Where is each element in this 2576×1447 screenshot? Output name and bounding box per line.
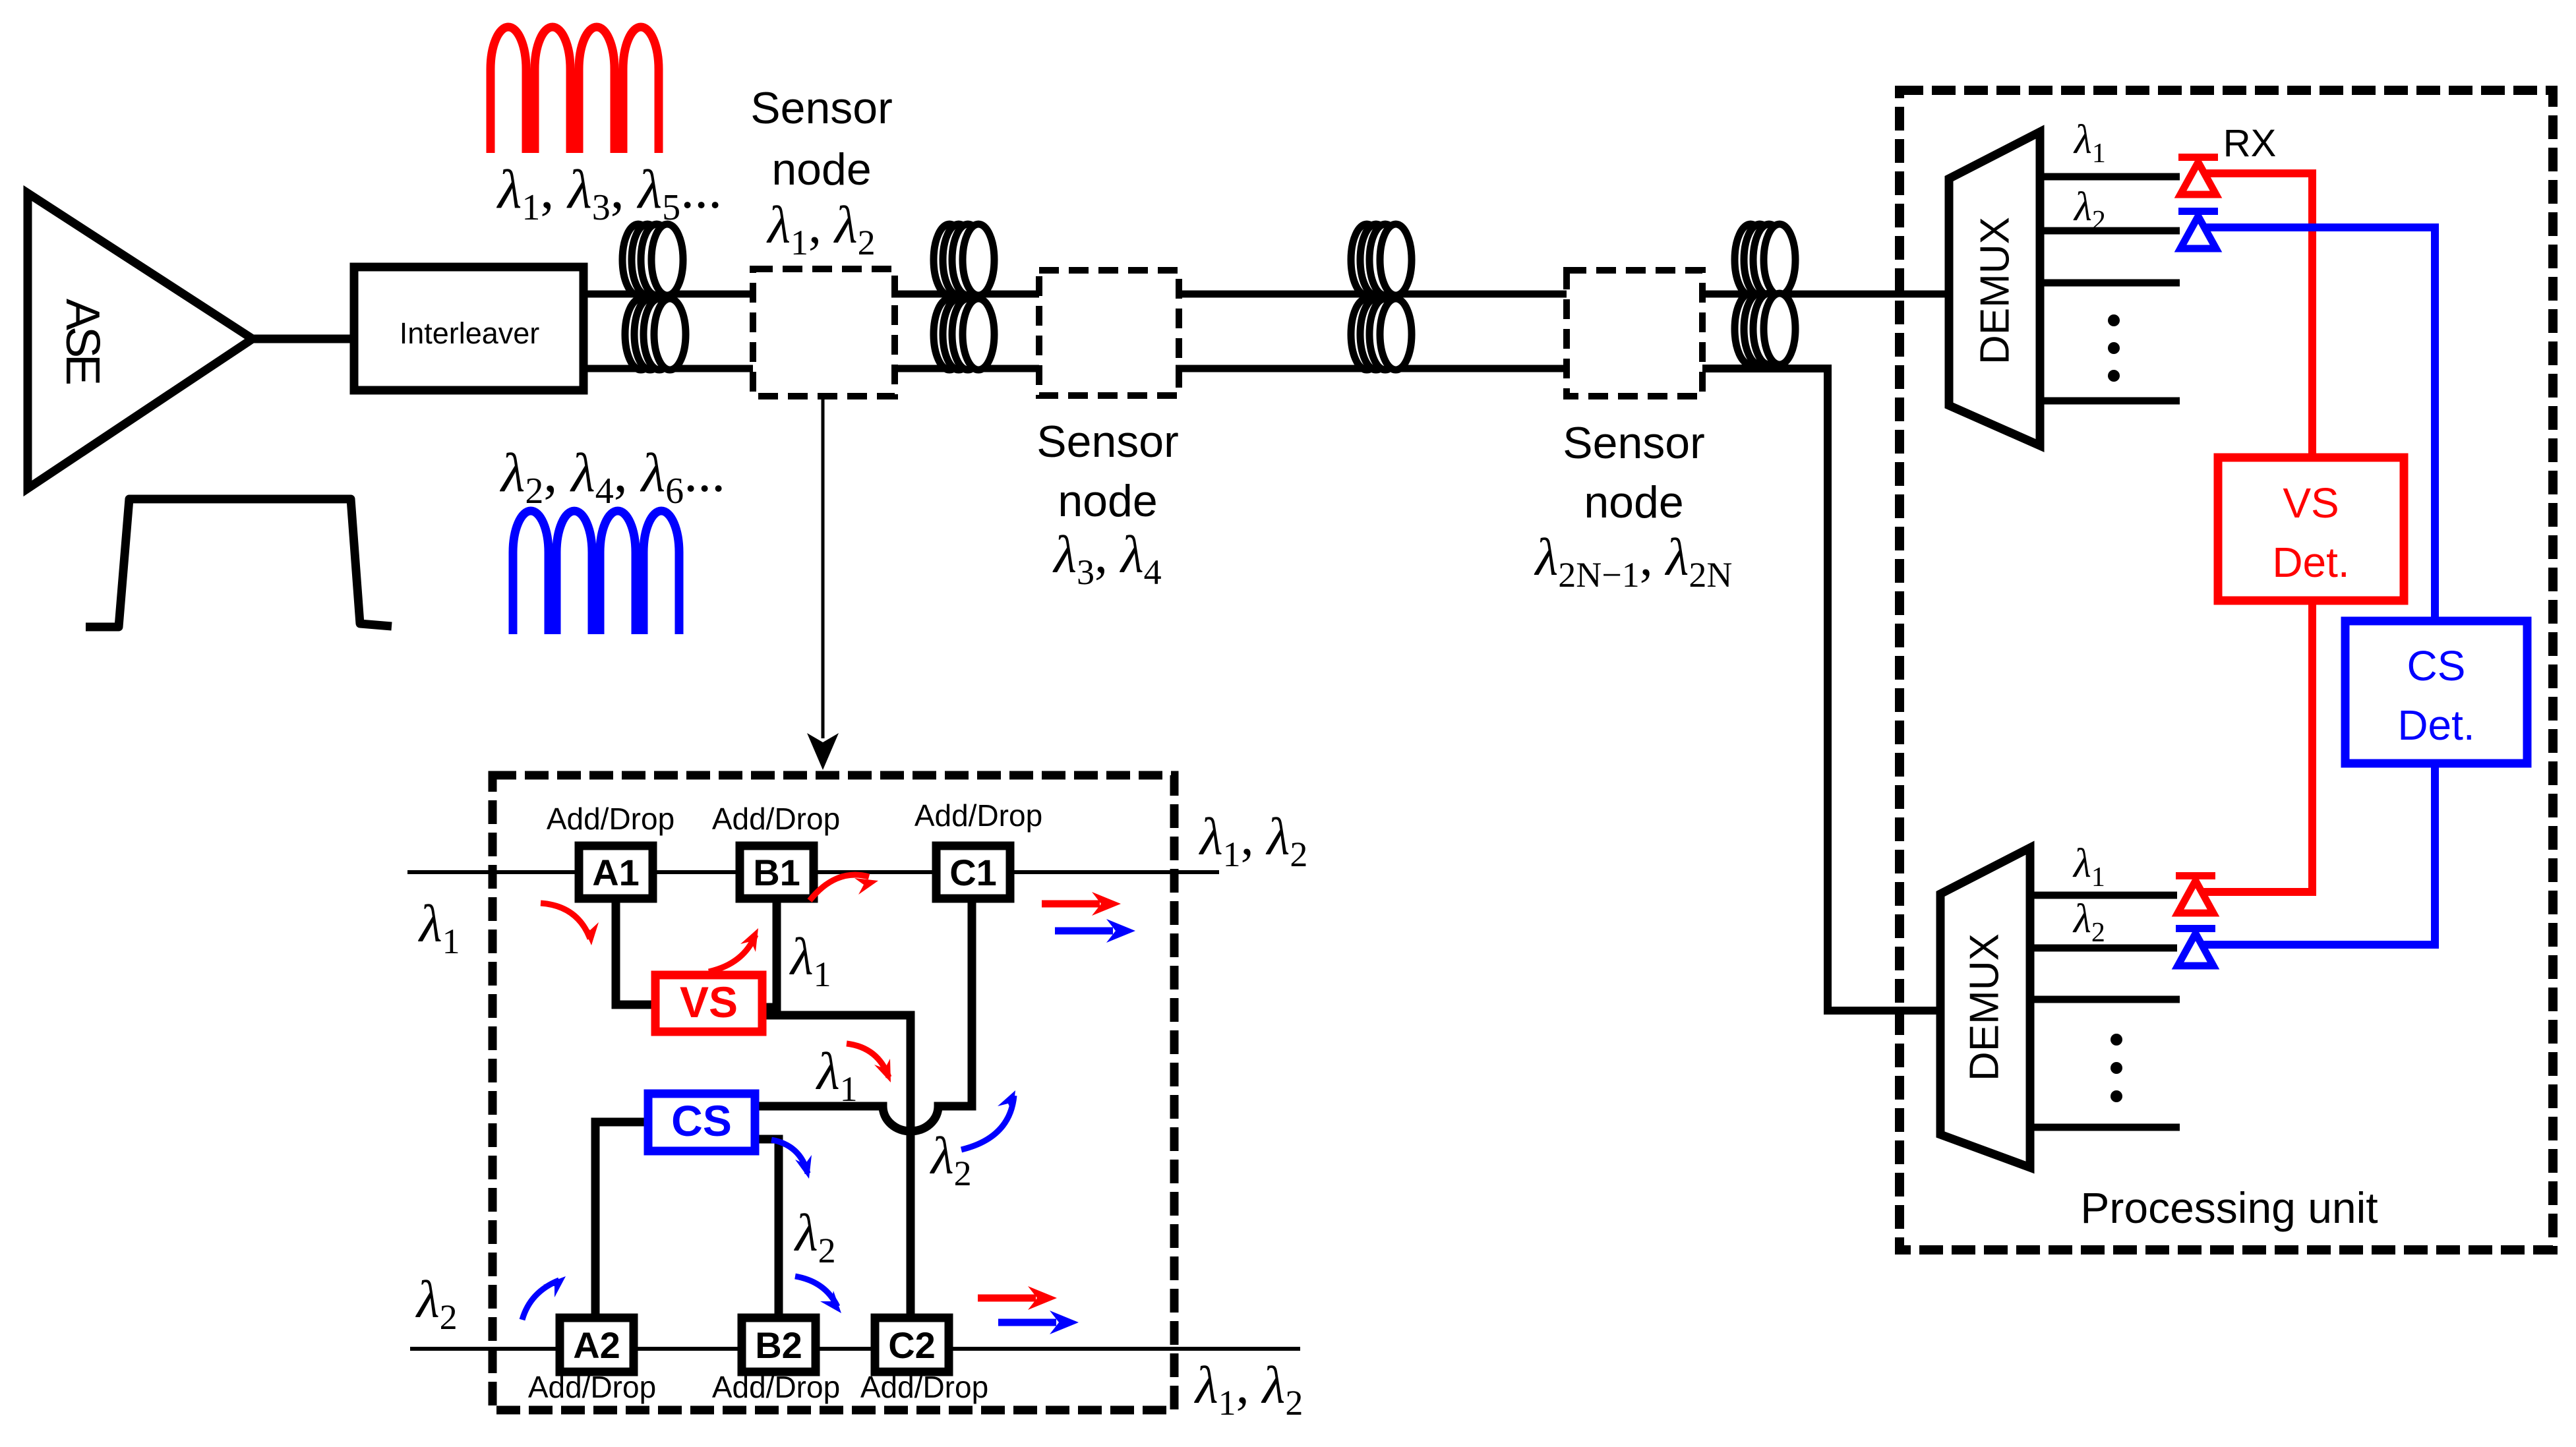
- add/drop filter A1: [579, 846, 653, 899]
- fiber coil 1 top: [622, 224, 683, 295]
- svg-text:Det.: Det.: [2272, 539, 2349, 586]
- svg-text:VS: VS: [680, 978, 738, 1026]
- bottom bus wire segments: [584, 365, 753, 372]
- processing unit dashed box: [1900, 90, 2553, 1250]
- DEMUX 2: [1940, 848, 2030, 1167]
- detail top bus wire: [407, 870, 1219, 874]
- fiber coil 2 bottom: [934, 299, 994, 370]
- red/blue arrows top right of detail: [1042, 901, 1100, 908]
- sensor node 3 box: [1567, 270, 1702, 396]
- DEMUX2 output wires: [2030, 892, 2177, 899]
- DEMUX2 dots: [2111, 1034, 2122, 1046]
- svg-text:DEMUX: DEMUX: [1962, 933, 2007, 1081]
- sensor node 1 box: [753, 269, 895, 396]
- wire A1 to VS: [616, 897, 659, 1005]
- red arrow add into B1: [709, 935, 756, 972]
- sensor node 2 box: [1039, 270, 1179, 396]
- add/drop filter C1: [936, 846, 1010, 899]
- svg-text:Sensor: Sensor: [1563, 418, 1704, 468]
- CS Det box: [2345, 621, 2527, 763]
- svg-text:Sensor: Sensor: [750, 83, 892, 133]
- wire VS to C2 (crosses under hop): [762, 1015, 911, 1322]
- fiber coil 3 top: [1351, 224, 1412, 295]
- svg-text:VS: VS: [2283, 479, 2339, 527]
- svg-text:ASE: ASE: [56, 299, 109, 384]
- bottom bus wire to DEMUX2: [1702, 369, 1940, 1011]
- add/drop filter C2: [875, 1318, 949, 1372]
- arrow node1 to detail view: [822, 399, 825, 738]
- svg-text:node: node: [771, 144, 871, 194]
- svg-text:Add/Drop: Add/Drop: [712, 802, 840, 836]
- CS sensor box: [648, 1094, 755, 1151]
- blue comb spectrum: [513, 511, 679, 634]
- svg-text:CS: CS: [671, 1096, 732, 1145]
- svg-text:B1: B1: [753, 852, 800, 893]
- red comb spectrum: [491, 27, 659, 153]
- svg-text:Add/Drop: Add/Drop: [528, 1370, 656, 1404]
- svg-text:DEMUX: DEMUX: [1972, 217, 2018, 365]
- svg-text:Add/Drop: Add/Drop: [914, 798, 1042, 833]
- svg-text:Add/Drop: Add/Drop: [860, 1370, 988, 1404]
- svg-text:node: node: [1584, 477, 1683, 527]
- red arrow lambda1 down at crossing: [847, 1044, 889, 1077]
- svg-text:Add/Drop: Add/Drop: [547, 802, 674, 836]
- DEMUX1 output wires: [2040, 173, 2180, 181]
- svg-text:Det.: Det.: [2397, 701, 2474, 749]
- svg-text:Processing unit: Processing unit: [2080, 1183, 2378, 1232]
- fiber coil 4 top: [1735, 224, 1795, 295]
- fiber coil 3 bottom: [1351, 299, 1412, 370]
- wire CS to C1 with hop over: [755, 897, 972, 1131]
- svg-text:A2: A2: [573, 1324, 620, 1366]
- photodiode RX lambda2 (blue): [2178, 208, 2218, 249]
- red arrow out of B1: [810, 875, 869, 901]
- svg-text:node: node: [1058, 476, 1157, 526]
- interleaver: [354, 267, 584, 390]
- VS sensor box: [655, 975, 762, 1032]
- blue arrow drop from A2: [522, 1280, 559, 1320]
- fiber coil 2 top: [934, 224, 994, 295]
- svg-text:Interleaver: Interleaver: [400, 316, 540, 350]
- wire ASE to interleaver: [253, 335, 359, 343]
- top bus wire segments: [584, 291, 753, 298]
- blue arrow lambda2 up to C1: [961, 1096, 1014, 1150]
- red wire PD1 to VS Det: [2202, 173, 2312, 458]
- fiber coil 4 bottom: [1735, 293, 1795, 365]
- flat-top spectrum sketch: [86, 499, 392, 627]
- photodiode RX lambda2 lower (blue): [2176, 925, 2215, 966]
- ASE source triangle: [28, 193, 253, 488]
- svg-text:A1: A1: [592, 852, 640, 893]
- red arrow drop from A1: [541, 903, 590, 939]
- svg-text:C2: C2: [888, 1324, 936, 1366]
- detail bottom bus wire: [410, 1347, 1300, 1351]
- fiber coil 1 bottom: [625, 299, 686, 370]
- svg-text:C1: C1: [949, 852, 997, 893]
- add/drop filter B1: [740, 846, 814, 899]
- blue arrow from CS down: [771, 1140, 808, 1173]
- svg-text:Sensor: Sensor: [1036, 417, 1178, 467]
- svg-text:B2: B2: [755, 1324, 802, 1366]
- blue wire PD2 to CS Det: [2202, 227, 2435, 621]
- red wire VS Det to PD3: [2202, 601, 2312, 892]
- photodiode RX lambda1 lower (red): [2176, 872, 2215, 913]
- add/drop filter A2: [560, 1318, 634, 1372]
- red/blue arrows bottom right of detail: [978, 1295, 1036, 1302]
- svg-text:CS: CS: [2407, 642, 2466, 690]
- add/drop filter B2: [742, 1318, 816, 1372]
- DEMUX 1: [1949, 132, 2040, 446]
- photodiode RX lambda1 (red): [2178, 154, 2218, 194]
- DEMUX1 dots: [2108, 314, 2120, 326]
- blue arrow add into B2: [795, 1276, 837, 1307]
- blue wire CS Det to PD4: [2202, 763, 2435, 945]
- wire CS to B2: [755, 1139, 779, 1322]
- svg-text:Add/Drop: Add/Drop: [712, 1370, 840, 1404]
- wire B1 to VS: [758, 897, 777, 1007]
- sensor node detail dashed box: [493, 775, 1174, 1410]
- VS Det box: [2218, 458, 2404, 601]
- wire CS to A2: [595, 1122, 648, 1322]
- svg-text:RX: RX: [2223, 122, 2277, 165]
